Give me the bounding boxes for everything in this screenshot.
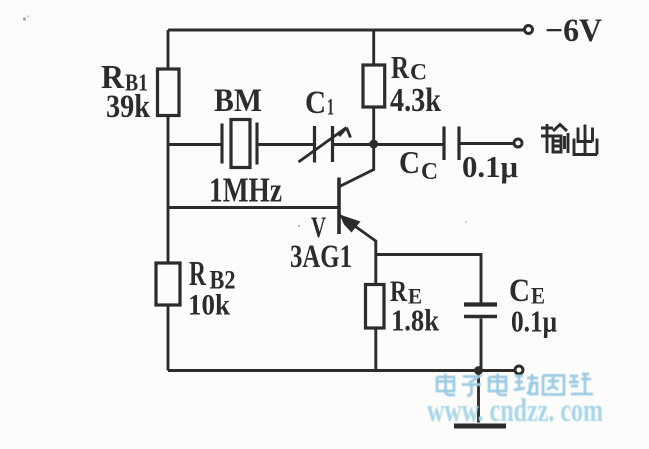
resistor RC vertical lead <box>372 30 375 145</box>
svg-text:R: R <box>189 254 206 293</box>
capacitor CE top plate <box>464 302 497 306</box>
resistor RE <box>366 285 385 329</box>
svg-text:10k: 10k <box>188 289 230 322</box>
svg-text:C: C <box>399 144 420 180</box>
capacitor C1 variable arrow <box>299 128 351 163</box>
svg-text:3AG1: 3AG1 <box>290 239 352 275</box>
wire: C1 to node <box>333 143 445 146</box>
svg-text:C: C <box>305 85 326 121</box>
speckle top left <box>23 17 26 20</box>
svg-text:1: 1 <box>327 95 334 120</box>
transistor V base bar <box>337 178 341 235</box>
wire: ground stem <box>477 371 480 423</box>
svg-text:0.1μ: 0.1μ <box>462 149 518 184</box>
wire: CC to output terminal <box>459 142 514 145</box>
svg-text:1.8k: 1.8k <box>391 303 440 338</box>
svg-text:1MHz: 1MHz <box>209 171 282 210</box>
wire: CE bottom lead <box>480 319 483 371</box>
transistor V emitter arrow <box>340 215 361 233</box>
capacitor CE bottom plate <box>464 315 497 319</box>
transistor V collector lead <box>340 146 374 187</box>
capacitor C1 left plate <box>313 126 316 163</box>
wire: emitter row to CE <box>376 255 481 303</box>
capacitor CC right plate <box>457 127 460 161</box>
svg-text:www. cndzz. com: www. cndzz. com <box>427 393 603 429</box>
wire: top supply rail <box>168 29 524 32</box>
crystal BM right plate <box>255 123 258 165</box>
wire: crystal row left segment <box>168 143 222 146</box>
capacitor C1 right plate <box>331 126 334 162</box>
wire: base wire <box>168 206 339 209</box>
node: emitter ground junction <box>474 366 483 375</box>
speckle mid <box>298 225 300 227</box>
svg-text:BM: BM <box>214 83 262 119</box>
svg-text:−6V: −6V <box>545 13 602 49</box>
wire: left vertical bus <box>167 30 170 371</box>
ground <box>454 424 506 429</box>
wire: bottom ground rail <box>168 369 515 372</box>
resistor RB2 <box>156 263 180 305</box>
svg-text:R: R <box>391 49 410 85</box>
resistor RC <box>363 65 385 107</box>
svg-text:C: C <box>421 159 438 185</box>
watermark line 1: dianzi dianlu tuzhan <box>437 374 593 396</box>
resistor RB1 <box>158 69 180 116</box>
crystal BM body <box>231 120 250 168</box>
capacitor CC left plate <box>442 127 445 161</box>
node: collector junction <box>369 140 378 149</box>
svg-text:C: C <box>410 60 427 85</box>
svg-text:39k: 39k <box>106 89 151 125</box>
terminal: ground output <box>515 366 523 374</box>
svg-text:4.3k: 4.3k <box>390 82 441 119</box>
crystal BM left plate <box>220 124 223 164</box>
label output chinese <box>541 124 597 155</box>
terminal: output <box>514 139 522 147</box>
wire: crystal to C1 <box>257 143 315 146</box>
svg-text:0.1μ: 0.1μ <box>511 304 557 339</box>
terminal: -6V supply <box>525 26 533 34</box>
wire: emitter vertical <box>374 240 377 371</box>
transistor V emitter lead <box>340 216 376 242</box>
